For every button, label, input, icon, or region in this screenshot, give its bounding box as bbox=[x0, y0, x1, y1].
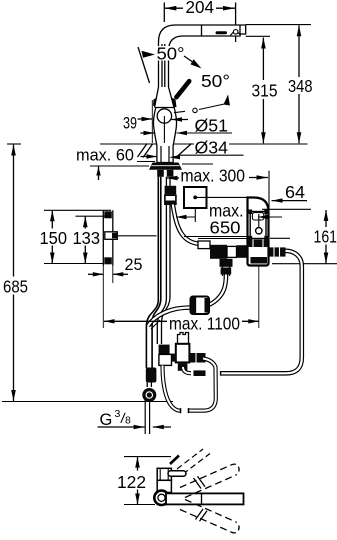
svg-text:39: 39 bbox=[123, 114, 137, 133]
max 1100 extension right bbox=[258, 266, 260, 329]
svg-text:Ø34: Ø34 bbox=[195, 138, 229, 158]
cable port leader bbox=[258, 216, 282, 218]
shank inner lines bbox=[160, 146, 162, 163]
dimension 25 extension left bbox=[102, 266, 104, 329]
bracket screw top bbox=[104, 211, 112, 218]
bracket line to faucet bbox=[118, 235, 157, 237]
dimension 161 label bbox=[312, 227, 337, 245]
ball joint stem bbox=[163, 116, 165, 143]
spray run end cap bbox=[220, 371, 222, 376]
T fitting hose down bbox=[223, 267, 230, 277]
dimension 39 extension line bbox=[151, 100, 153, 143]
G 3/8 leader underline bbox=[98, 426, 145, 428]
hose line right of box bbox=[270, 237, 290, 239]
svg-text:50°: 50° bbox=[201, 71, 230, 91]
reference line top 348 bbox=[246, 24, 311, 26]
outlet fitting bbox=[194, 370, 206, 376]
control box position line bbox=[268, 171, 270, 210]
svg-text:3: 3 bbox=[115, 408, 121, 420]
hose weight bbox=[191, 297, 210, 315]
dimension 64 line bbox=[272, 200, 308, 202]
bracket screw bottom bbox=[104, 257, 112, 264]
dimension 39 arrow left bbox=[138, 118, 153, 120]
bracket middle fitting bbox=[105, 232, 118, 240]
dimension 204 arrow right bbox=[223, 6, 235, 11]
solenoid valve lower bbox=[178, 362, 188, 370]
dimension 685 line bbox=[13, 145, 15, 402]
spray hose with weight bbox=[193, 275, 226, 308]
deck top line left bbox=[100, 143, 157, 145]
svg-text:650: 650 bbox=[210, 218, 241, 238]
dimension 315 label bbox=[250, 80, 281, 99]
angle 50 deg label 1 bbox=[155, 46, 186, 61]
valve bottom elbow bbox=[183, 367, 191, 373]
hose to valve train bbox=[173, 205, 198, 244]
svg-text:133: 133 bbox=[73, 228, 101, 248]
angle 50 deg right upper line bbox=[184, 56, 199, 66]
control box lower left port bbox=[239, 247, 248, 257]
dimension diameter 34 label bbox=[194, 141, 229, 155]
dimension 150 reference top bbox=[44, 209, 111, 211]
threaded shank right bbox=[167, 170, 174, 177]
dimension 204 line bbox=[164, 7, 183, 9]
dimension diameter 34 leader underline bbox=[180, 154, 244, 156]
bottom view lever arm bbox=[168, 471, 186, 477]
svg-text:8: 8 bbox=[125, 415, 131, 427]
G 3/8 arrow right bbox=[153, 426, 171, 428]
dimension 204 arrow left bbox=[164, 6, 176, 11]
svg-text:150: 150 bbox=[40, 228, 68, 248]
left supply pipe between bbox=[147, 383, 151, 388]
faucet body below ball bbox=[153, 108, 176, 163]
deck hatch right bbox=[177, 144, 192, 158]
angle 50 deg left line bbox=[138, 47, 150, 83]
spray head nozzle dome bbox=[233, 30, 238, 35]
bottom view body bbox=[157, 480, 171, 492]
svg-text:204: 204 bbox=[186, 0, 215, 17]
bottom view spout divider bbox=[201, 493, 203, 504]
reference line top 315 bbox=[246, 35, 270, 37]
control box mid band bbox=[248, 240, 268, 248]
power cable to box bbox=[197, 196, 248, 198]
svg-text:max. 60: max. 60 bbox=[76, 146, 134, 165]
max 300 arrow right bbox=[249, 177, 268, 179]
max 60 lower leader bbox=[137, 161, 155, 163]
max 1100 line left bbox=[104, 320, 167, 322]
dimension diameter 51 underline bbox=[177, 132, 233, 134]
handle socket right bbox=[170, 97, 177, 108]
dimension 133 label bbox=[71, 229, 102, 246]
svg-text:64: 64 bbox=[285, 182, 305, 202]
spray hose from control box bbox=[221, 251, 302, 373]
wall bracket bbox=[102, 210, 104, 265]
max 300 arrow left bbox=[166, 177, 179, 179]
bottom view pivot ring bbox=[154, 491, 168, 505]
dimension 315 arrow top bbox=[261, 38, 266, 49]
bottom view lever tip diagonal bbox=[170, 456, 179, 465]
supply hose left pair bbox=[146, 177, 158, 368]
ball joint bbox=[157, 109, 171, 123]
dimension 348 line bbox=[298, 25, 300, 143]
bottom view reference top bbox=[124, 456, 171, 458]
swivel arm lower dashed bbox=[180, 500, 236, 533]
spray head nozzle triangle bbox=[230, 30, 240, 36]
control box body bbox=[248, 198, 269, 266]
deck bottom line right bbox=[182, 163, 213, 165]
control box bottom bar bbox=[251, 257, 268, 264]
dimension 122 line bbox=[137, 457, 139, 505]
max 650 leader arrow bbox=[176, 216, 195, 218]
dimension 685 label bbox=[1, 277, 30, 295]
dimension bottom reference bbox=[44, 263, 104, 265]
power plug box bbox=[184, 187, 207, 208]
swivel arm upper hash bbox=[194, 478, 202, 489]
control box inner top detail bbox=[252, 213, 263, 220]
dimension 39 arrow right bbox=[172, 119, 189, 121]
swivel arm lower hash bbox=[196, 509, 204, 520]
angle 50 deg right upper arrow bbox=[191, 59, 202, 68]
svg-text:max. 300: max. 300 bbox=[181, 166, 246, 186]
deck hatch left pair bbox=[138, 144, 148, 158]
dimension 204 extension line right bbox=[235, 3, 237, 43]
dimension 150 label bbox=[38, 229, 69, 246]
dimension diameter 34 arrow left bbox=[141, 156, 158, 158]
spray head button bbox=[216, 31, 228, 34]
valve T connector left bbox=[168, 354, 176, 362]
bottom view reference bottom bbox=[124, 504, 155, 506]
control box center line bbox=[258, 214, 260, 228]
spout axis circle bbox=[193, 108, 197, 112]
deck top line right bbox=[229, 143, 308, 145]
dimension 161 reference top bbox=[262, 208, 311, 210]
supply hose right pair bbox=[157, 177, 166, 344]
bottom reference line bbox=[2, 401, 173, 403]
svg-text:161: 161 bbox=[314, 227, 337, 247]
dimension 315 line bbox=[262, 38, 264, 144]
hose connector block lower bbox=[165, 195, 176, 204]
dimension 25 extension right bbox=[112, 266, 114, 284]
bottom view lever block bbox=[157, 468, 171, 480]
swivel arm upper end cap bbox=[231, 464, 239, 475]
max 1100 line right bbox=[242, 320, 259, 322]
dimension 685 arrow bottom bbox=[11, 390, 16, 401]
swivel arm lower end cap bbox=[231, 522, 239, 533]
hose break marks bbox=[148, 317, 157, 326]
escutcheon flange bbox=[149, 163, 182, 170]
valve right connector bbox=[190, 353, 206, 363]
svg-text:25: 25 bbox=[125, 255, 143, 274]
lever handle bbox=[176, 81, 189, 97]
max 650 leader vertical bbox=[194, 209, 196, 223]
bracket line to control box bbox=[184, 236, 247, 238]
faucet neck bbox=[155, 87, 175, 108]
angle 50 deg left arrow bbox=[142, 51, 156, 58]
spout axis arrow bbox=[224, 95, 231, 106]
hose connector block upper bbox=[165, 186, 177, 195]
svg-text:685: 685 bbox=[3, 277, 28, 297]
dimension 348 arrow top bbox=[297, 25, 302, 36]
power plug dot bbox=[193, 196, 197, 200]
svg-text:50°: 50° bbox=[157, 43, 185, 63]
control box screw bbox=[256, 228, 262, 234]
svg-text:348: 348 bbox=[288, 76, 313, 96]
dimension 133 line and arrows bbox=[84, 216, 86, 263]
dimension diameter 51 arrow left bbox=[141, 132, 155, 134]
hose elbow below T bbox=[163, 366, 181, 411]
control box lower right port bbox=[269, 247, 286, 256]
left supply fitting bbox=[146, 368, 157, 383]
dimension diameter 34 arrow right bbox=[169, 155, 180, 159]
right hose lower fitting bbox=[159, 345, 170, 355]
spout inner stripes bbox=[161, 44, 163, 87]
dimension 685 reference top bbox=[7, 143, 21, 145]
max 60 deck bottom arrow bbox=[98, 167, 100, 181]
dimension diameter 51 arrow right bbox=[177, 131, 188, 135]
spray head divider bbox=[201, 25, 203, 36]
G 3/8 pipe bbox=[145, 400, 149, 434]
G 3/8 connection nut bbox=[142, 388, 156, 402]
swivel arm upper dashed bbox=[180, 465, 236, 498]
dimension 150 line and arrows bbox=[51, 210, 53, 263]
dimension 348 arrow bottom bbox=[297, 132, 302, 143]
spray head end cap bbox=[239, 25, 241, 34]
dimension 685 arrow top bbox=[11, 145, 16, 156]
deck top line mid bbox=[173, 143, 194, 145]
deck bottom line left bbox=[90, 165, 149, 167]
svg-text:max. 1100: max. 1100 bbox=[169, 314, 240, 334]
control box inner frame bbox=[250, 212, 266, 239]
solenoid valve body bbox=[176, 344, 190, 363]
horizontal fitting train bbox=[198, 238, 247, 240]
svg-text:122: 122 bbox=[117, 472, 146, 492]
T fitting below bbox=[220, 259, 233, 267]
faucet spout outline bbox=[159, 25, 246, 87]
spout axis dash near ball bbox=[174, 111, 185, 112]
dimension 25 arrows bbox=[88, 273, 103, 275]
dimension 133 reference top bbox=[76, 215, 112, 217]
G 3/8 arrow left bbox=[134, 425, 145, 429]
threaded shank left bbox=[157, 170, 164, 177]
dimension 161 reference bottom bbox=[272, 263, 337, 265]
hose loop end cap bbox=[188, 408, 190, 413]
dimension 161 line bbox=[325, 210, 327, 264]
dimension 204 extension line left bbox=[163, 3, 165, 23]
dimension 315 arrow bottom bbox=[261, 132, 266, 143]
bottom view spout bar bbox=[166, 493, 244, 504]
bottom view lever dashes bbox=[177, 449, 203, 469]
dimension 122 label bbox=[115, 471, 147, 490]
hose elbow end cap bbox=[180, 408, 182, 413]
train connector dark bbox=[210, 245, 227, 259]
svg-text:315: 315 bbox=[252, 81, 278, 101]
solenoid valve crown bbox=[178, 333, 189, 345]
handle socket left bbox=[153, 97, 159, 108]
dimension 348 label bbox=[286, 77, 315, 94]
hose loop below valve bbox=[189, 359, 216, 411]
spout axis line bbox=[199, 104, 227, 110]
